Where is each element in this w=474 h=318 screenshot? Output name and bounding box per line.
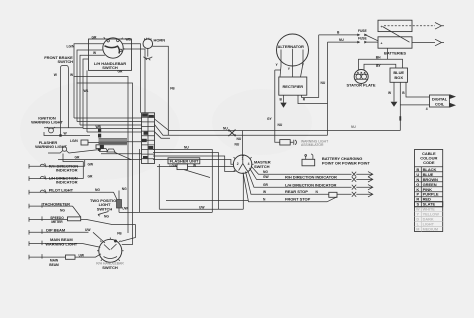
svg-text:SWITCH: SWITCH [102,65,118,70]
wire BH [359,48,403,70]
row main beam [29,253,101,267]
svg-text:NU: NU [278,123,283,127]
loom horizontals to connector strip [74,118,142,132]
wire NG row [251,166,373,177]
svg-text:NG: NG [60,209,65,213]
alternator [277,34,309,66]
svg-text:CODE: CODE [423,160,435,165]
ground (blue box) [393,82,395,102]
svg-text:GR: GR [75,156,81,160]
main NU bus [155,119,401,131]
svg-text:GW: GW [88,162,95,166]
wire UW long [119,149,243,212]
svg-text:NU: NU [235,143,240,147]
svg-text:NU: NU [237,137,242,141]
svg-text:4: 4 [248,162,250,166]
junction block marks [98,129,101,133]
svg-text:2: 2 [237,162,239,166]
wire BY [364,64,396,70]
battery series link [383,27,410,43]
svg-text:W1: W1 [84,89,89,93]
wire from small box [88,142,99,144]
svg-text:BEAM: BEAM [49,263,59,267]
R/H handlebar switch [96,238,124,271]
row pilot light [29,188,117,200]
wire NU fuse line [328,41,379,43]
svg-text:RECTIFIER: RECTIFIER [282,84,303,89]
wire NU vertical [327,42,329,135]
wire B fuse line [319,35,378,41]
svg-text:UW: UW [79,253,85,257]
svg-text:FUSE: FUSE [358,37,367,41]
svg-text:INDICATOR: INDICATOR [56,167,78,172]
svg-text:FB: FB [117,232,122,236]
wire rect to NU [298,95,328,103]
row tachometer [29,202,81,217]
svg-text:WARNING LIGHT: WARNING LIGHT [45,242,77,247]
ignition warning light [31,115,63,133]
digital coil [430,95,450,107]
svg-text:M: M [416,228,419,232]
svg-text:GW: GW [263,175,270,179]
front brake switch [44,55,73,136]
svg-text:NG: NG [263,170,268,174]
wire R to fuse B [302,35,319,98]
wire W from ignition lamp [44,127,83,129]
svg-text:SWITCH: SWITCH [58,59,74,64]
row speedometer [29,215,136,225]
svg-text:UW: UW [85,228,91,232]
blue box [390,68,408,82]
wire GR row L/H direction indicator [248,170,373,190]
fuse 2 [357,41,360,44]
svg-text:S: S [416,202,419,207]
wires from switch box left to vertical loom [74,44,105,132]
wire stub left of front stop [166,200,249,202]
svg-text:ALTERNATOR: ALTERNATOR [278,44,305,49]
ground (horn) [143,49,152,61]
battery 1 [378,20,412,31]
svg-text:UW: UW [122,206,128,210]
svg-text:WB: WB [126,38,132,42]
svg-text:WB: WB [96,125,102,129]
ground (rectifier) [283,95,285,102]
svg-text:DIP BEAM: DIP BEAM [46,228,66,233]
svg-text:LG/N: LG/N [67,45,75,49]
svg-text:FUSE: FUSE [358,29,367,33]
svg-text:SWITCH: SWITCH [97,206,113,211]
svg-text:POINT OR POWER POINT: POINT OR POWER POINT [322,161,370,166]
svg-text:WARNING LIGHT: WARNING LIGHT [31,120,63,125]
svg-text:GR: GR [118,70,124,74]
svg-text:NU: NU [223,127,228,131]
wire blue box to bus [399,82,401,130]
svg-text:DARK: DARK [423,218,434,222]
svg-text:SLATE: SLATE [423,202,436,207]
svg-text:Y: Y [417,213,420,217]
wire strip to master terminal 2 [153,160,233,165]
svg-text:1: 1 [242,157,244,161]
warning light assimilator [280,139,328,147]
junction dot [98,148,101,151]
svg-text:SWITCH: SWITCH [102,265,118,270]
master switch [233,131,270,174]
connector block [96,145,104,149]
battery 1 dashed output [384,25,435,27]
junction blob [114,240,117,243]
svg-text:D: D [416,218,419,222]
row R/H direction indicator [29,160,94,173]
svg-text:NG: NG [95,188,100,192]
row dip beam [29,228,105,243]
svg-text:LG/N: LG/N [170,164,178,168]
third strip diagonal [155,132,171,138]
wire strip to master lower-left [153,156,236,172]
svg-text:R/H DIRECTION INDICATOR: R/H DIRECTION INDICATOR [285,175,337,180]
svg-text:YELLOW: YELLOW [423,213,440,217]
svg-text:COIL: COIL [435,101,445,106]
svg-text:BOX: BOX [394,75,403,80]
svg-text:+: + [381,25,383,29]
svg-text:BH: BH [376,55,381,59]
wire GW row R/H direction indicator [250,168,373,182]
horn [143,37,165,48]
svg-text:FRONT STOP: FRONT STOP [285,197,311,202]
flasher unit [157,158,234,178]
L/H handlebar switch box [89,39,132,70]
svg-text:LG/N: LG/N [70,139,78,143]
wire W row rear stop [246,172,373,198]
wire W lower run [44,132,90,136]
battery charging point [302,154,370,166]
wire strip to line A [153,153,218,210]
svg-text:GR: GR [263,183,269,187]
svg-text:INDICATOR: INDICATOR [56,180,78,185]
svg-text:NU: NU [351,125,356,129]
svg-text:TACHOMETER: TACHOMETER [43,202,71,207]
speedo wire down to switch [121,225,136,242]
svg-text:+: + [381,42,383,46]
row L/H direction indicator [29,162,93,185]
small component box LG/N [81,140,88,145]
svg-text:NU: NU [184,145,189,149]
wire master to UW [242,173,244,209]
svg-text:GR: GR [92,35,98,39]
wires circle to connector strip [122,44,145,113]
svg-text:WHITE: WHITE [423,208,436,212]
alternator leads [280,49,303,77]
GR wires wrapping below switch box [74,77,133,245]
svg-text:L/H DIRECTION INDICATOR: L/H DIRECTION INDICATOR [285,182,337,187]
svg-text:NG: NG [104,215,109,219]
junction dot on W wire [59,134,61,136]
svg-text:SWITCH: SWITCH [254,164,270,169]
wire bus to coil [400,104,429,106]
rectifier [279,77,307,95]
svg-text:ASSIMILATOR: ASSIMILATOR [301,143,324,147]
spark plug lead 2 [450,103,457,108]
battery 2 [378,37,412,48]
ignition switch hatch [99,139,142,160]
wire N row front stop [166,173,337,202]
spark plug lead 1 [450,94,457,99]
svg-text:GR: GR [88,175,94,179]
battery 2 output [412,39,444,46]
two position light switch [90,187,129,216]
L/H handlebar switch rotary contact [103,37,125,58]
svg-text:NU: NU [339,38,344,42]
wire strip to UW line [153,150,212,213]
wire FB from horn [152,46,168,135]
svg-text:STATOR PLATE: STATOR PLATE [346,83,375,88]
svg-text:FB: FB [170,87,175,91]
wire GY [275,70,281,142]
svg-text:LIGHT: LIGHT [423,223,435,227]
row main beam warning light [29,237,100,247]
svg-text:NG: NG [122,187,127,191]
harness connector strip [142,113,155,164]
fuse 1 [357,34,360,37]
wire blue box to coil [406,82,430,97]
svg-text:NU: NU [321,81,326,85]
wire GR flasher [58,154,142,162]
svg-text:MEDIUM: MEDIUM [423,228,438,232]
stator plate [346,70,375,88]
svg-text:REAR STOP: REAR STOP [285,189,308,194]
svg-text:UW: UW [199,205,205,209]
svg-text:PILOT LIGHT: PILOT LIGHT [49,188,74,193]
svg-text:W: W [416,208,420,212]
svg-text:METER: METER [51,220,63,224]
bus junction cross [229,130,236,137]
second NU bus [155,125,328,136]
svg-text:4: 4 [426,107,428,111]
flasher warning light [35,140,97,153]
svg-text:HORN: HORN [154,37,166,42]
